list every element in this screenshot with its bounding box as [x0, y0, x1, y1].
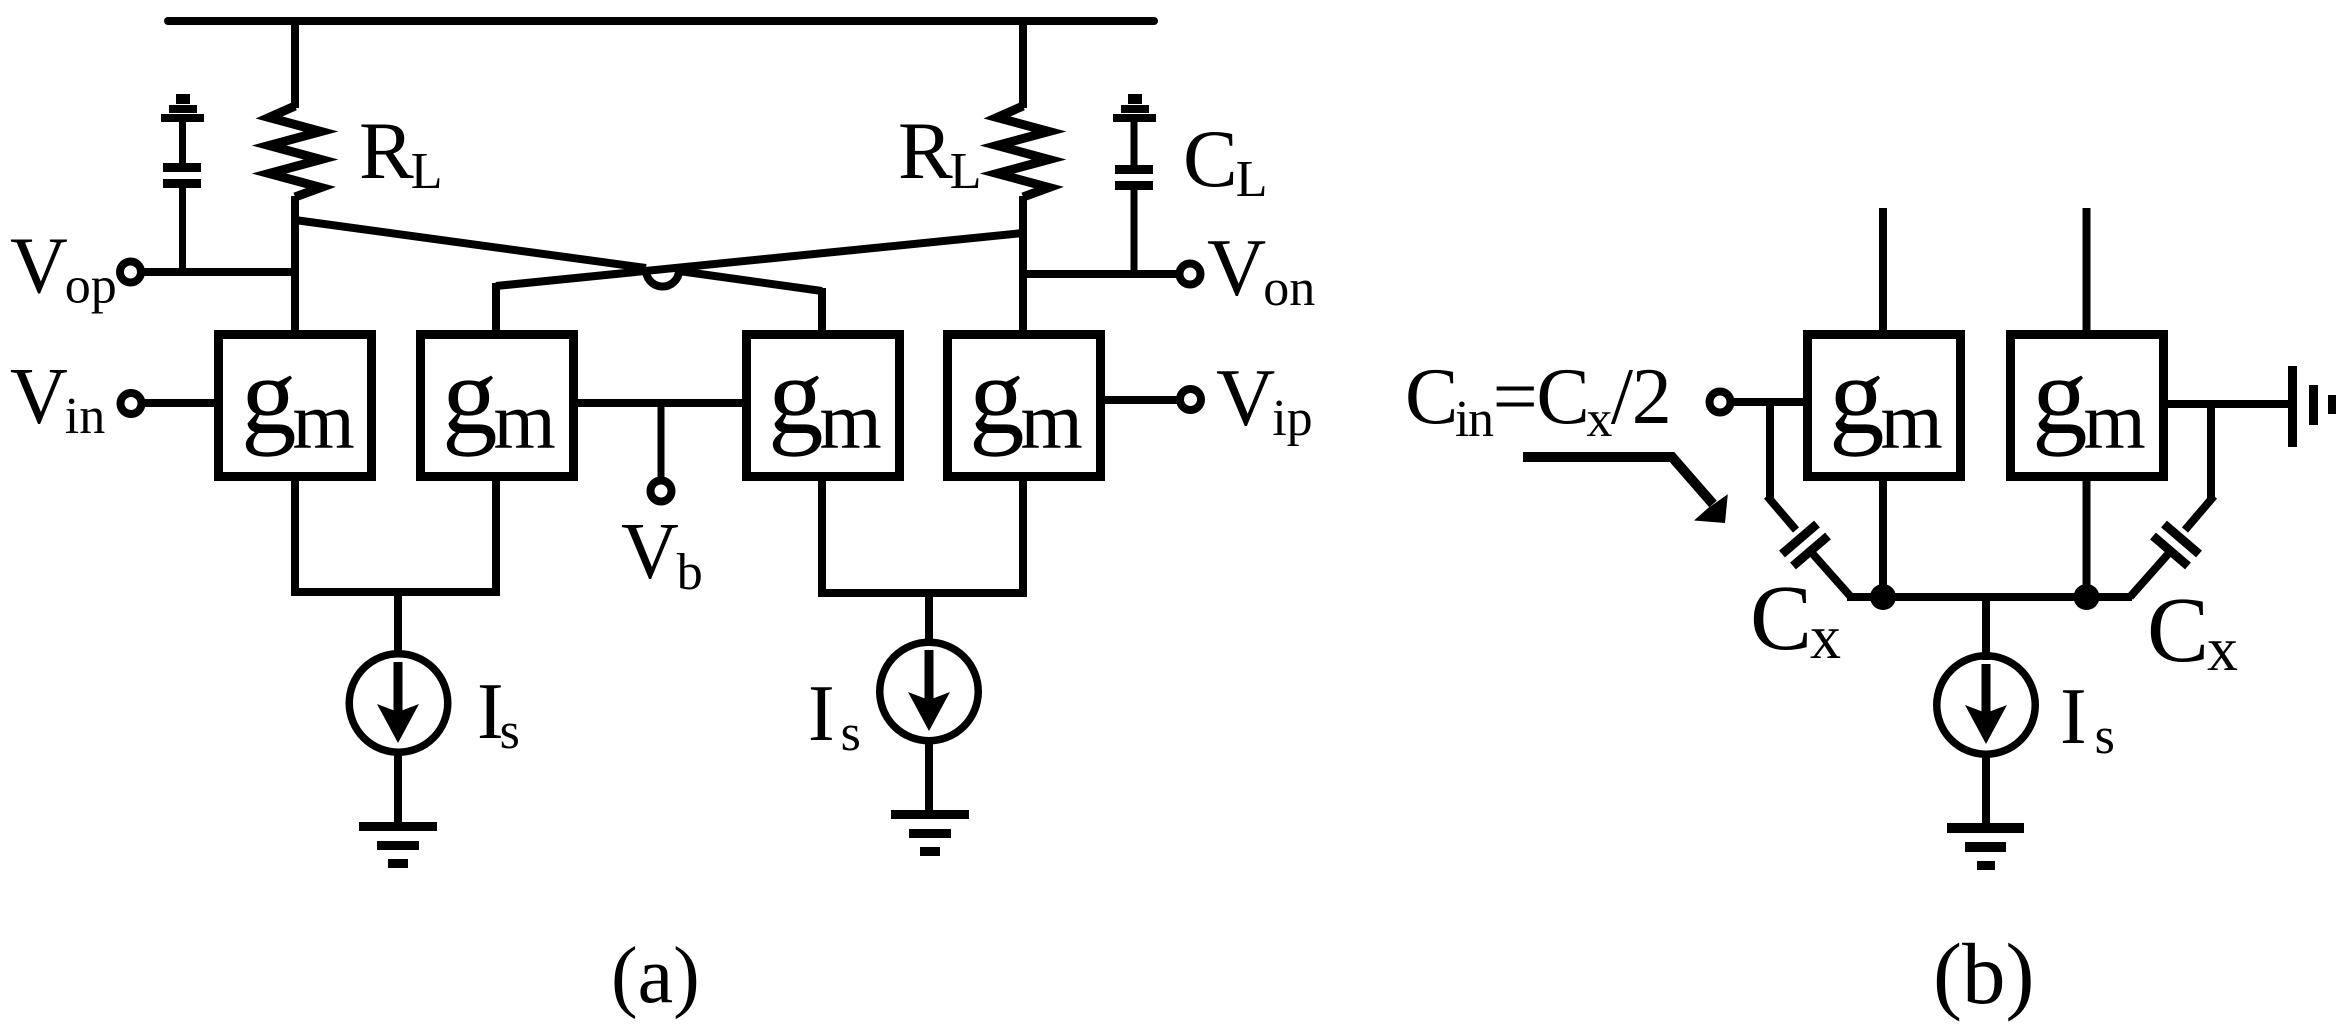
- svg-text:(b): (b): [1933, 925, 2034, 1022]
- svg-text:Cin=Cx/2: Cin=Cx/2: [1405, 353, 1670, 448]
- svg-text:(a): (a): [611, 932, 700, 1020]
